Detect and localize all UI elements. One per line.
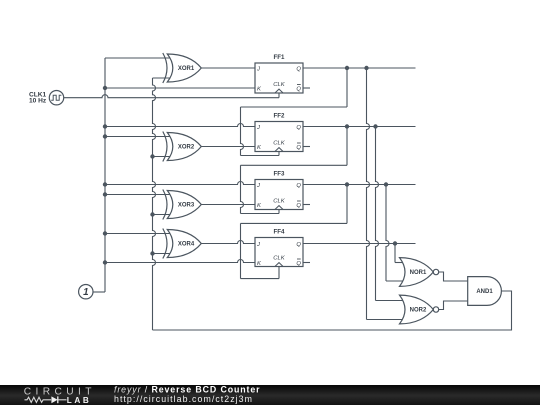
flip-flop FF2 (255, 122, 303, 152)
svg-text:Q: Q (296, 125, 301, 131)
svg-text:LAB: LAB (67, 396, 92, 405)
wire clock link row3 bottom (241, 213, 280, 215)
wire AND1 output feedback (153, 291, 512, 330)
logo diode (51, 396, 57, 403)
svg-text:CLK: CLK (273, 141, 286, 147)
node rail1-XOR3A (103, 192, 107, 196)
wire NOR2 output to AND1 input B (439, 301, 468, 310)
svg-text:J: J (256, 125, 260, 131)
wire 1-source to rail (91, 291, 105, 293)
svg-text:10 Hz: 10 Hz (29, 98, 47, 105)
node Q1 drop tap (364, 66, 368, 70)
wire clock link row3 horizontal (241, 164, 348, 166)
wire rail-1 to FF3 J (105, 182, 255, 185)
wire clock riser FF2 (278, 152, 280, 156)
node rail1-XOR4A (103, 231, 107, 235)
wire clock riser FF3 (278, 210, 280, 214)
wire FF4 Q output line (303, 243, 416, 245)
svg-text:Q: Q (296, 261, 301, 267)
svg-text:FF4: FF4 (273, 229, 285, 236)
node Q2 clock tap (345, 124, 349, 128)
svg-text:Q: Q (296, 183, 301, 189)
node rail1-K4 (103, 260, 107, 264)
wire FF1 Q drop to NOR2 input B (367, 68, 370, 320)
wire FF2 Q down to FF3 clock link (346, 127, 348, 166)
wire rail-1 to FF1 K (105, 87, 255, 89)
wire rail-1 to XOR2 input A (105, 136, 170, 138)
wire CLK1 riser to FF1 CLK pin (278, 93, 280, 98)
svg-text:NOR2: NOR2 (410, 308, 427, 314)
wire feedback rail vertical (153, 78, 156, 330)
wire feedback rail to XOR1 input B (153, 77, 171, 79)
wire clock link row4 bottom (241, 278, 280, 280)
wire XOR1 output to FF1 J (201, 67, 255, 69)
wire into NOR1 input B (386, 280, 403, 282)
svg-text:NOR1: NOR1 (410, 270, 427, 276)
NOR gate NOR1 (400, 258, 434, 287)
svg-text:Q: Q (296, 203, 301, 209)
node rail1-J2 (103, 124, 107, 128)
node Q3 clock tap (345, 182, 349, 186)
wire constant-1 rail (104, 58, 106, 292)
svg-text:XOR1: XOR1 (178, 66, 195, 72)
wire into NOR2 input A (376, 300, 403, 302)
svg-text:XOR3: XOR3 (178, 203, 195, 209)
AND gate AND1 (468, 277, 502, 306)
XOR gate XOR4 (167, 230, 201, 258)
wire rail-1 to XOR3 input A (105, 194, 170, 196)
logo resistor squiggle (25, 397, 52, 402)
svg-text:J: J (256, 66, 260, 72)
wire feedback rail to XOR2 input B (153, 156, 171, 158)
wire rail-1 to FF4 K (105, 260, 255, 263)
svg-text:FF2: FF2 (273, 113, 285, 120)
svg-text:CLK: CLK (273, 82, 286, 88)
flip-flop FF4 (255, 238, 303, 267)
node Q3 drop tap (384, 182, 388, 186)
wire feedback rail to XOR3 input B (153, 214, 171, 216)
clock source CLK1 (49, 91, 63, 105)
wire clock link row2 vertical (241, 107, 244, 156)
XOR gate XOR2 (167, 133, 201, 161)
svg-text:Q: Q (296, 242, 301, 248)
wire FF3 Q drop to NOR1 input B (386, 185, 389, 282)
wire FF1 Q output line (303, 67, 416, 69)
wire clock link row4 horizontal (241, 222, 348, 224)
svg-text:FF1: FF1 (273, 54, 285, 61)
wire FF3 Q output line (303, 184, 416, 186)
wire FF4 Qbar stub (303, 262, 310, 264)
wire clock link row3 vertical (241, 165, 244, 213)
wire rail-1 to XOR4 input A (105, 233, 170, 235)
wire XOR2 output to FF2 K (201, 146, 255, 148)
wire rail-1 to XOR1 input A (105, 57, 170, 59)
svg-text:Q: Q (296, 86, 301, 92)
wire clock link row2 bottom (241, 155, 280, 157)
svg-text:http://circuitlab.com/ct2zj3m: http://circuitlab.com/ct2zj3m (114, 394, 253, 404)
node rail1-XOR2A (103, 134, 107, 138)
svg-text:FF3: FF3 (273, 171, 285, 178)
wire clock riser FF4 (278, 267, 280, 279)
svg-text:Q: Q (296, 145, 301, 151)
wire FF1 Qbar stub (303, 87, 310, 89)
wire clock link row2 horizontal (241, 106, 348, 108)
node rail1-K1 (103, 86, 107, 90)
node rail2-XOR4B (150, 251, 154, 255)
wire NOR1 output to AND1 input A (439, 272, 468, 281)
NOR gate NOR2 (400, 295, 434, 324)
wire feedback rail to XOR4 input B (153, 253, 171, 255)
node Q2 drop tap (373, 124, 377, 128)
wire FF3 Q down to FF4 clock link (346, 185, 348, 224)
svg-text:CLK: CLK (273, 256, 286, 262)
svg-text:AND1: AND1 (476, 289, 493, 295)
wire FF3 Qbar stub (303, 204, 310, 206)
flip-flop FF1 (255, 63, 303, 93)
svg-text:J: J (256, 242, 260, 248)
svg-text:1: 1 (83, 287, 88, 298)
wire FF2 Q output line (303, 126, 416, 128)
node rail1-J3 (103, 182, 107, 186)
wire XOR4 output to FF4 J (201, 241, 255, 244)
svg-text:XOR2: XOR2 (178, 145, 195, 151)
node rail2-XOR3B (150, 212, 154, 216)
node Q1 clock tap (345, 66, 349, 70)
wire XOR3 output to FF3 K (201, 204, 255, 206)
wire CLK1 output to FF1 CLK (64, 95, 279, 98)
logic constant 1 source (79, 285, 93, 299)
wire FF2 Qbar stub (303, 146, 310, 148)
svg-text:XOR4: XOR4 (178, 242, 195, 248)
wire FF1 Q down to FF2 clock link (346, 68, 348, 107)
wire into NOR1 input A (395, 262, 403, 264)
wire FF4 Q drop to NOR1 input A (394, 244, 396, 263)
flip-flop FF3 (255, 180, 303, 210)
XOR gate XOR3 (167, 191, 201, 219)
node Q4 drop tap (393, 241, 397, 245)
wire into NOR2 input B (367, 319, 403, 321)
node rail2-XOR2B (150, 154, 154, 158)
wire clock link row4 vertical (240, 223, 242, 278)
wire rail-1 to FF2 J (105, 124, 255, 127)
svg-text:CLK: CLK (273, 199, 286, 205)
XOR gate XOR1 (167, 54, 201, 82)
svg-text:J: J (256, 183, 260, 189)
svg-text:Q: Q (296, 66, 301, 72)
wire FF2 Q drop to NOR2 input A (376, 127, 379, 301)
